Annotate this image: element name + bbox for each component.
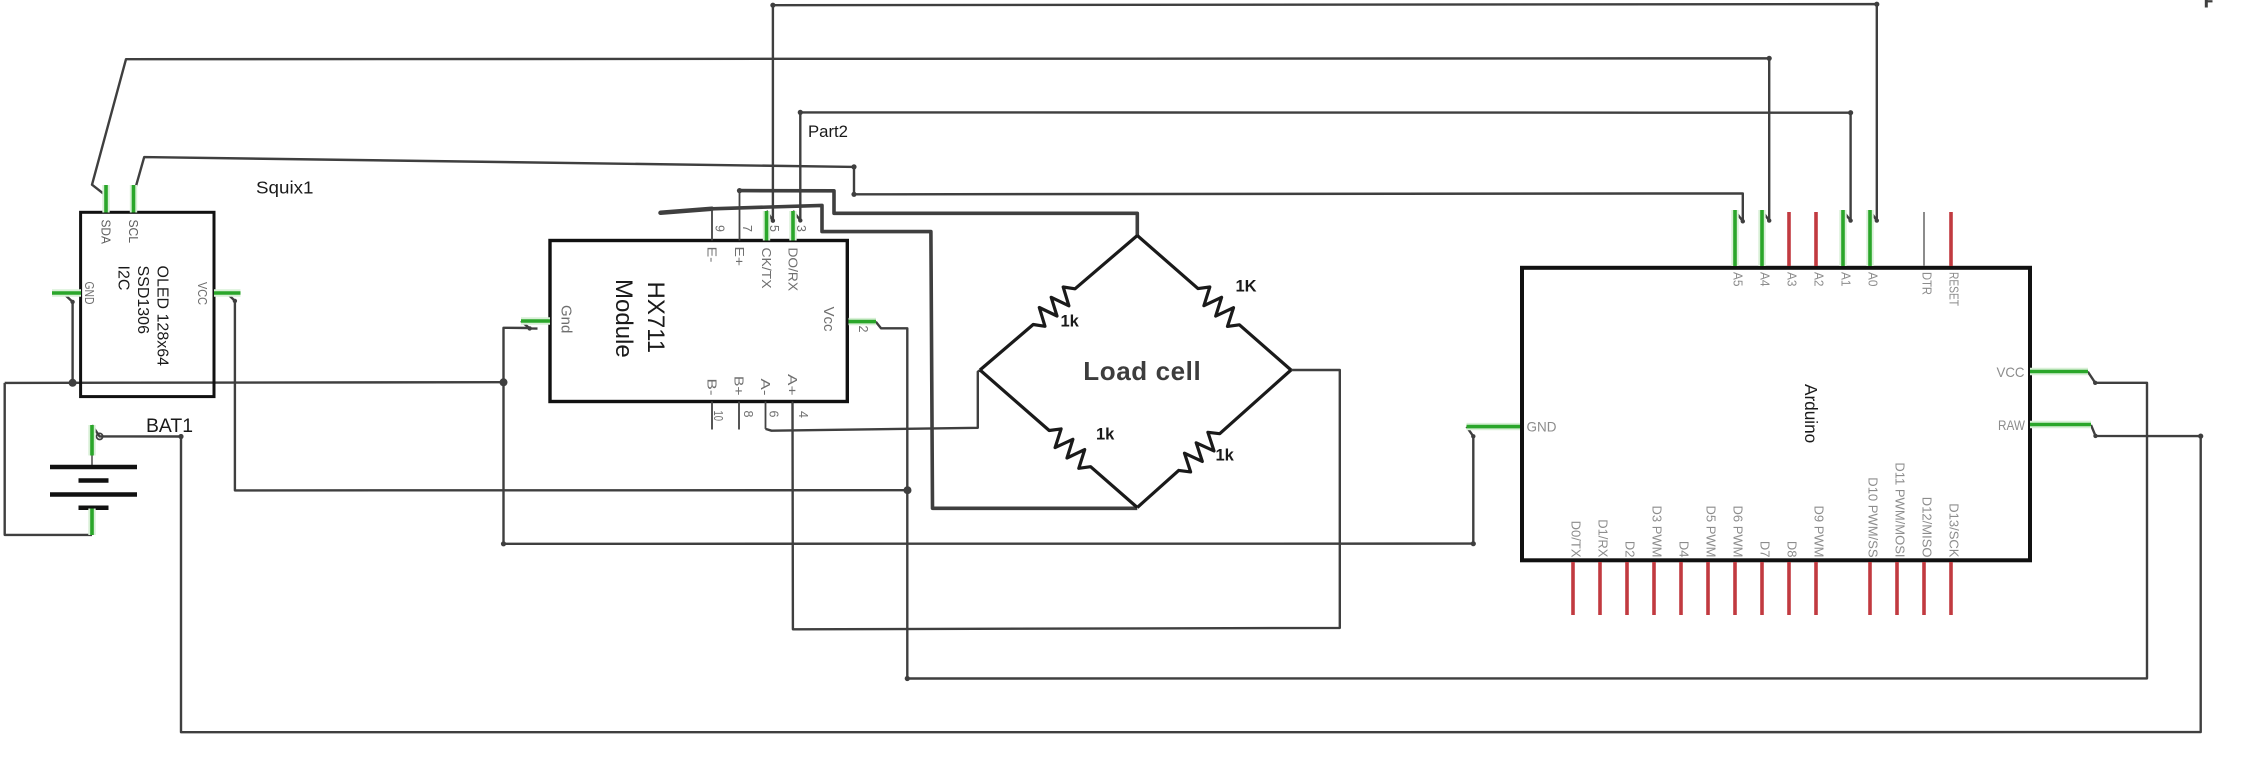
wire E- -> load cell bottom node bbox=[712, 205, 1137, 508]
bendpoint bbox=[2198, 434, 2203, 439]
bendpoint bbox=[770, 3, 775, 8]
svg-text:Arduino: Arduino bbox=[1801, 384, 1821, 443]
svg-text:D11 PWM/MOSI: D11 PWM/MOSI bbox=[1893, 462, 1908, 557]
svg-text:D4: D4 bbox=[1677, 541, 1692, 558]
hook elbow bbox=[771, 219, 775, 223]
svg-text:D12/MISO: D12/MISO bbox=[1920, 497, 1935, 558]
bendpoint bbox=[798, 110, 803, 115]
wire SCL: OLED SCL -> Arduino A5 bbox=[134, 157, 1743, 221]
svg-text:D13/SCK: D13/SCK bbox=[1947, 503, 1962, 558]
wire A+ -> load cell right node bbox=[793, 370, 1340, 629]
battery plate short 1 bbox=[79, 478, 109, 483]
svg-text:I2C: I2C bbox=[114, 266, 131, 291]
junction GND bus bbox=[500, 378, 508, 386]
OLED pin GND bbox=[52, 289, 81, 296]
hook elbow bbox=[1767, 218, 1771, 222]
Arduino pin D1/RX bbox=[1598, 562, 1602, 615]
svg-text:D3 PWM: D3 PWM bbox=[1650, 506, 1665, 558]
Arduino pin GND bbox=[1467, 423, 1521, 430]
hook elbow bbox=[528, 326, 532, 330]
wire VCC net: HX711 Vcc -> Arduino VCC bbox=[876, 322, 2147, 679]
battery plate short 2 bbox=[79, 506, 109, 511]
hook elbow bbox=[233, 299, 237, 303]
wire OLED VCC -> VCC junction bbox=[229, 295, 908, 490]
bendpoint bbox=[1471, 541, 1476, 546]
junction GND/OLED bbox=[69, 379, 77, 387]
hook elbow bbox=[2093, 434, 2097, 438]
svg-text:B+: B+ bbox=[732, 376, 747, 396]
svg-text:1k: 1k bbox=[1216, 447, 1235, 465]
Arduino pin D11 PWM/MOSI bbox=[1895, 562, 1899, 615]
svg-text:Vcc: Vcc bbox=[820, 307, 837, 333]
hook elbow bbox=[1875, 218, 1879, 222]
svg-text:Gnd: Gnd bbox=[558, 305, 575, 333]
bendpoint bbox=[1874, 2, 1879, 7]
svg-text:A+: A+ bbox=[785, 374, 800, 396]
Arduino pin D5 PWM bbox=[1706, 562, 1710, 615]
svg-text:GND: GND bbox=[1527, 419, 1557, 435]
Arduino pin D3 PWM bbox=[1652, 562, 1656, 615]
svg-text:Part2: Part2 bbox=[808, 122, 848, 141]
battery BAT1 lead top bbox=[91, 425, 93, 467]
svg-text:GND: GND bbox=[82, 282, 96, 305]
wire SDA: OLED SDA -> Arduino A4 bbox=[92, 58, 1769, 220]
wire CK/TX -> Arduino A0 bbox=[767, 4, 1877, 221]
Arduino pin D7 bbox=[1760, 562, 1764, 615]
svg-text:9: 9 bbox=[712, 225, 726, 232]
svg-text:1k: 1k bbox=[1061, 313, 1080, 331]
bendpoint bbox=[851, 164, 856, 169]
bendpoint bbox=[1767, 56, 1772, 61]
junction VCC bus bbox=[904, 486, 912, 494]
HX711 pin 9 E- bbox=[711, 209, 713, 240]
wire A- -> load cell left node bbox=[766, 370, 981, 431]
hook elbow bbox=[70, 300, 74, 304]
svg-text:DTR: DTR bbox=[1920, 272, 1935, 295]
svg-text:A3: A3 bbox=[1785, 272, 1800, 287]
Arduino pin A0 bbox=[1866, 210, 1873, 266]
svg-text:2: 2 bbox=[856, 326, 870, 333]
svg-text:4: 4 bbox=[796, 411, 810, 418]
svg-text:B-: B- bbox=[705, 379, 720, 396]
svg-text:Module: Module bbox=[610, 279, 637, 358]
svg-text:D10 PWM/SS: D10 PWM/SS bbox=[1866, 477, 1881, 558]
Arduino pin D12/MISO bbox=[1922, 562, 1926, 615]
wire HX711 Gnd hook tail bbox=[521, 321, 538, 329]
OLED pin SCL bbox=[130, 185, 137, 213]
svg-text:SSD1306: SSD1306 bbox=[134, 266, 151, 335]
Arduino pin A3 bbox=[1787, 212, 1791, 266]
svg-text:E+: E+ bbox=[732, 247, 747, 267]
Arduino pin D0/TX bbox=[1571, 562, 1575, 615]
Arduino pin DTR bbox=[1923, 212, 1925, 266]
svg-text:RESET: RESET bbox=[1947, 272, 1962, 306]
load cell edge upper-left with resistor 1k bbox=[980, 236, 1137, 371]
Arduino pin RAW bbox=[2030, 421, 2091, 428]
svg-text:8: 8 bbox=[741, 411, 755, 418]
wire GND bus horizontal bbox=[5, 381, 504, 384]
OLED display Squix1 box bbox=[81, 212, 214, 396]
bendpoint bbox=[1848, 110, 1853, 115]
svg-text:3: 3 bbox=[794, 225, 808, 232]
svg-text:VCC: VCC bbox=[195, 282, 209, 305]
svg-text:A0: A0 bbox=[1866, 272, 1881, 287]
svg-text:D9 PWM: D9 PWM bbox=[1812, 506, 1827, 558]
hook elbow bbox=[1848, 218, 1852, 222]
HX711 pin 6 A- bbox=[765, 402, 767, 429]
wire battery plus -> Arduino RAW bbox=[92, 425, 2201, 732]
battery wire end ring bbox=[97, 433, 103, 439]
svg-text:RAW: RAW bbox=[1998, 417, 2026, 433]
svg-text:A-: A- bbox=[758, 379, 773, 396]
Arduino pin A4 bbox=[1758, 210, 1765, 266]
wire OLED GND pin drop bbox=[64, 294, 73, 383]
svg-text:E-: E- bbox=[705, 247, 720, 263]
hook elbow bbox=[1741, 219, 1745, 223]
svg-text:D6 PWM: D6 PWM bbox=[1731, 506, 1746, 558]
Arduino pin A2 bbox=[1814, 212, 1818, 266]
HX711 pin 1 Gnd bbox=[521, 317, 550, 324]
wire DO/RX -> Arduino A1 bbox=[793, 112, 1851, 220]
svg-text:A1: A1 bbox=[1839, 272, 1854, 287]
HX711 pin 4 A+ stub bbox=[792, 402, 794, 431]
svg-text:D1/RX: D1/RX bbox=[1596, 519, 1611, 558]
Arduino pin RESET bbox=[1949, 212, 1953, 266]
svg-text:DO/RX: DO/RX bbox=[786, 248, 801, 292]
wire GND to battery minus bbox=[5, 383, 92, 535]
Arduino pin D2 bbox=[1625, 562, 1629, 615]
svg-text:1K: 1K bbox=[1236, 278, 1257, 296]
svg-text:D0/TX: D0/TX bbox=[1569, 521, 1584, 558]
HX711 pin 8 B+ bbox=[738, 402, 740, 430]
wire GND net: HX711 Gnd -> Arduino GND bbox=[504, 328, 1474, 544]
svg-text:D8: D8 bbox=[1785, 541, 1800, 558]
svg-text:Squix1: Squix1 bbox=[256, 178, 314, 198]
svg-text:A4: A4 bbox=[1758, 272, 1773, 287]
HX711 pin 5 CK/TX bbox=[763, 211, 770, 241]
hook elbow bbox=[2093, 381, 2097, 385]
Arduino pin VCC bbox=[2030, 368, 2088, 375]
HX711 module box bbox=[550, 241, 847, 402]
load cell edge lower-left with resistor 1k bbox=[980, 370, 1137, 508]
Arduino box bbox=[1522, 268, 2030, 561]
HX711 pin 2 Vcc bbox=[849, 318, 877, 325]
battery pin plus bbox=[88, 425, 95, 456]
svg-text:A2: A2 bbox=[1812, 272, 1827, 287]
svg-text:D5 PWM: D5 PWM bbox=[1704, 506, 1719, 558]
Arduino pin D13/SCK bbox=[1949, 562, 1953, 615]
svg-text:HX711: HX711 bbox=[642, 282, 669, 354]
svg-text:5: 5 bbox=[767, 225, 781, 232]
svg-text:OLED 128x64: OLED 128x64 bbox=[154, 266, 171, 367]
Arduino pin D10 PWM/SS bbox=[1868, 562, 1872, 615]
svg-text:SCL: SCL bbox=[126, 220, 141, 244]
HX711 pin 10 B- bbox=[711, 402, 713, 430]
bendpoint bbox=[178, 434, 183, 439]
load cell edge upper-right with resistor 1K bbox=[1137, 236, 1291, 371]
bendpoint bbox=[501, 541, 506, 546]
wire E+ -> load cell top node bbox=[740, 191, 1138, 236]
OLED pin SDA bbox=[102, 185, 109, 213]
svg-text:BAT1: BAT1 bbox=[146, 416, 193, 437]
Arduino pin D6 PWM bbox=[1733, 562, 1737, 615]
Arduino pin D4 bbox=[1679, 562, 1683, 615]
Arduino pin D8 bbox=[1787, 562, 1791, 615]
svg-text:A5: A5 bbox=[1731, 272, 1746, 287]
OLED pin VCC bbox=[214, 289, 241, 296]
hook elbow bbox=[1471, 434, 1475, 438]
Arduino pin A5 bbox=[1731, 210, 1738, 266]
bendpoint bbox=[851, 192, 856, 197]
svg-text:VCC: VCC bbox=[1997, 364, 2025, 380]
hook elbow bbox=[798, 218, 802, 222]
wire stub top-right corner bbox=[2205, 0, 2208, 8]
svg-text:10: 10 bbox=[711, 411, 725, 422]
svg-text:CK/TX: CK/TX bbox=[759, 248, 774, 289]
battery plate long 2 bbox=[50, 492, 137, 497]
bendpoint bbox=[737, 188, 742, 193]
svg-text:1k: 1k bbox=[1096, 426, 1115, 444]
svg-text:7: 7 bbox=[740, 225, 754, 232]
Arduino pin D9 PWM bbox=[1814, 562, 1818, 615]
svg-text:6: 6 bbox=[767, 411, 781, 418]
load cell edge lower-right with resistor 1k bbox=[1137, 370, 1291, 508]
HX711 pin 7 E+ bbox=[739, 191, 741, 241]
svg-text:Load cell: Load cell bbox=[1083, 356, 1201, 386]
battery plate long 1 bbox=[50, 465, 137, 470]
Arduino pin A1 bbox=[1839, 210, 1846, 266]
battery pin minus bbox=[88, 509, 95, 536]
HX711 pin 3 DO/RX bbox=[789, 211, 796, 241]
svg-text:D2: D2 bbox=[1623, 541, 1638, 558]
svg-text:D7: D7 bbox=[1758, 541, 1773, 558]
wire E- stub left (unconnected) bbox=[661, 209, 713, 213]
bendpoint bbox=[905, 676, 910, 681]
svg-text:SDA: SDA bbox=[99, 220, 114, 245]
